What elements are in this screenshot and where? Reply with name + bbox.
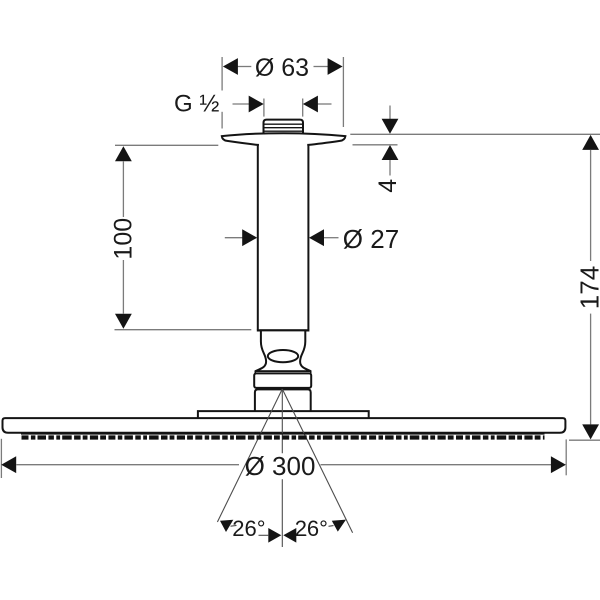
svg-text:Ø 63: Ø 63	[255, 54, 309, 82]
svg-text:G ½: G ½	[174, 90, 219, 117]
mounting pad	[198, 411, 369, 419]
thread nub G1/2 connector	[264, 120, 304, 136]
lip ring	[255, 371, 310, 373]
left angle arrow	[220, 520, 233, 532]
shower plate	[3, 418, 566, 433]
nut block	[254, 373, 311, 388]
svg-text:26°: 26°	[295, 516, 328, 541]
angle dimension 26 26	[220, 516, 346, 543]
ball joint ellipse	[268, 350, 298, 362]
svg-text:Ø 300: Ø 300	[245, 451, 316, 481]
dimension 4	[353, 106, 403, 193]
svg-text:26°: 26°	[232, 516, 265, 541]
pipe	[257, 143, 310, 330]
ball joint	[255, 330, 310, 371]
spray line center	[281, 389, 283, 547]
lower block	[255, 389, 311, 411]
center-right angle arrow	[283, 528, 296, 543]
svg-text:4: 4	[374, 179, 402, 193]
right angle arrow	[332, 520, 346, 532]
dimension D63	[222, 54, 343, 129]
svg-text:Ø 27: Ø 27	[343, 224, 399, 254]
svg-text:174: 174	[575, 266, 600, 309]
dimension 100	[110, 145, 252, 329]
nozzle band	[21, 434, 545, 438]
ceiling flange escutcheon	[222, 133, 346, 145]
ceiling reference line	[350, 133, 600, 135]
dimension D27	[225, 224, 399, 254]
spray line left	[217, 389, 282, 522]
spray line right	[282, 389, 352, 533]
dimension G 1/2	[174, 90, 332, 117]
dimension D300	[1, 439, 566, 481]
dimension 174	[569, 135, 600, 440]
svg-text:100: 100	[110, 218, 138, 260]
center-left angle arrow	[268, 528, 281, 543]
